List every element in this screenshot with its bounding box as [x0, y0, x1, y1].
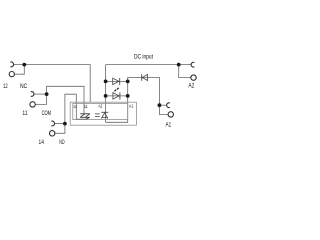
photodiode D4 input arrow 2	[95, 116, 100, 117]
diode D3 (series diode to A1, pointing left)	[142, 74, 147, 80]
svg-text:NC: NC	[20, 83, 28, 90]
relay module outer box	[70, 102, 136, 125]
photodiode D4 (optocoupler receiver, in box, pointing up)	[101, 111, 108, 113]
junction node bridge bottom-left	[104, 94, 108, 98]
junction node terminal 11	[45, 92, 49, 96]
triac Q1 (output switch in box)	[80, 114, 90, 119]
wire terminal 11 arc to node	[34, 93, 47, 95]
wire A1 run: series diode line right, down to A1 node; right column down, left under box	[106, 78, 160, 123]
terminal 14 socket arc	[51, 121, 54, 126]
junction node bridge top-left	[104, 80, 108, 84]
svg-text:12: 12	[3, 83, 8, 90]
svg-text:11: 11	[22, 110, 27, 117]
wire A1 terminal drop to screw-circle	[159, 105, 168, 114]
wire terminal 12 screw-circle to node	[14, 65, 24, 75]
terminal 11 screw circle	[30, 102, 35, 107]
LED D2 emission arrow 1	[114, 90, 117, 93]
wire left bridge column down through box pin A2 to photodiode	[105, 65, 107, 123]
svg-text:A1: A1	[129, 103, 134, 109]
svg-text:A2: A2	[188, 82, 194, 89]
LED D2 emission arrow 2	[116, 88, 119, 91]
wire A2 terminal drop to screw-circle	[179, 65, 191, 78]
wire NC run: terminal 12 arc to node, right and down to box pin 12	[13, 65, 90, 103]
LED D2 (indicator diode, bottom bridge branch)	[113, 93, 119, 99]
wire NO run: node up, right, down into box pin 14, to triac gate	[65, 94, 87, 123]
terminal A1 screw circle	[168, 112, 173, 117]
wire A1 terminal arc stub	[159, 104, 166, 106]
svg-text:COM: COM	[42, 110, 51, 117]
terminal A2 socket arc	[191, 62, 194, 67]
junction node terminal 12	[22, 63, 26, 67]
wire COM run: node up, right, down into box pin 11 to triac	[47, 86, 84, 114]
terminal A1 socket arc	[167, 103, 170, 108]
junction node bridge top-right	[126, 80, 130, 84]
svg-text:DC input: DC input	[134, 54, 153, 61]
photodiode D4 input arrow 1	[95, 113, 100, 114]
terminal 12 screw circle	[9, 72, 14, 77]
svg-text:14: 14	[39, 139, 45, 146]
wire terminal 14 screw-circle to node	[55, 124, 65, 134]
SSR plug inner box	[73, 103, 128, 119]
terminal 12 socket arc	[10, 62, 13, 67]
svg-text:A1: A1	[166, 121, 172, 128]
diode D1 (top bridge diode)	[113, 78, 119, 84]
svg-text:14: 14	[73, 104, 77, 110]
wire terminal 11 screw-circle to node	[35, 94, 46, 104]
junction node bridge bottom-right	[126, 94, 130, 98]
terminal 14 screw circle	[50, 131, 55, 136]
junction node terminal 14	[63, 122, 67, 126]
wire terminal 14 arc to node	[54, 123, 65, 125]
junction node terminal A2	[177, 63, 181, 67]
triac Q1 gate	[86, 117, 89, 119]
wire bridge bottom rail	[106, 95, 128, 97]
svg-text:NO: NO	[59, 139, 64, 146]
wire DC input run: corner to A2 terminal arc	[106, 64, 192, 66]
terminal 11 socket arc	[31, 92, 34, 97]
svg-text:A2: A2	[98, 103, 103, 109]
wire bridge top rail	[106, 80, 128, 82]
svg-text:11: 11	[84, 104, 88, 110]
junction node terminal A1	[158, 103, 162, 107]
terminal A2 screw circle	[191, 75, 196, 80]
